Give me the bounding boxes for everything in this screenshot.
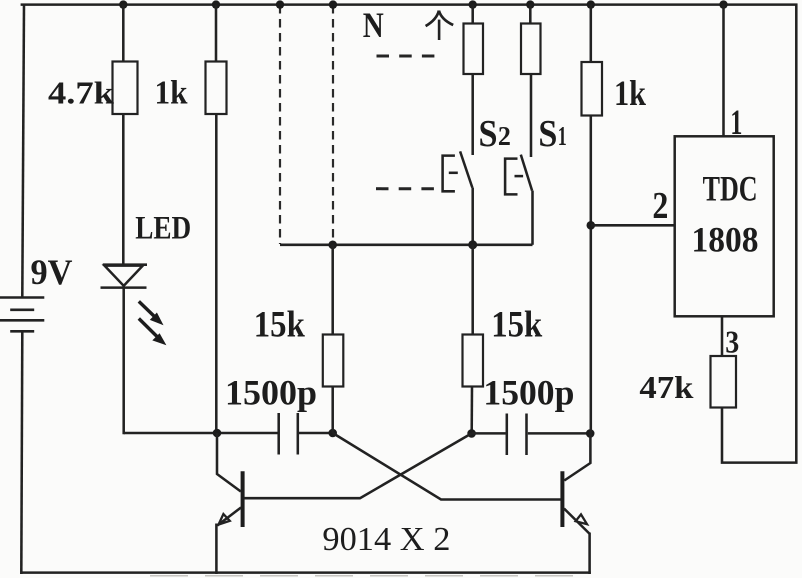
resistor R6 (S1 branch) (521, 24, 541, 75)
node bus / S2 / R5 (468, 240, 477, 249)
wire top rail to R6 (529, 5, 532, 24)
svg-text:S: S (479, 113, 498, 155)
wire trigger to TDC pin 2 (591, 224, 675, 227)
svg-text:1500p: 1500p (225, 372, 317, 412)
wire Q1 base lead (244, 433, 472, 498)
svg-text:9V: 9V (31, 252, 73, 292)
svg-text:N: N (363, 5, 384, 45)
resistor R3 15k (323, 335, 344, 387)
wire bottom ground rail (20, 573, 591, 576)
wire top rail to R2 (215, 5, 218, 62)
dashed line reed boundary left (279, 5, 281, 244)
node top rail / R1 (119, 0, 127, 8)
switch S1 (505, 155, 532, 195)
node trigger junction (587, 221, 596, 230)
wire battery negative to bottom rail (21, 333, 22, 575)
label pin 1 (730, 102, 742, 142)
wire R4 to switch S2 contact (471, 74, 474, 155)
transistor Q1 9014 (216, 433, 242, 574)
wire top supply rail (21, 3, 798, 6)
wire top rail to R7 (590, 5, 593, 63)
node C2 / R5 junction (467, 429, 476, 438)
label 1500p right (483, 372, 574, 412)
transistor Q2 9014 (562, 433, 590, 574)
node C1 / R3 base-drive junction (328, 429, 337, 438)
wire top rail to R1 (122, 5, 125, 62)
label 47k (639, 369, 693, 405)
svg-text:1808: 1808 (692, 220, 759, 260)
wire R1 to LED (122, 114, 125, 265)
svg-text:1k: 1k (155, 75, 188, 112)
svg-text:1500p: 1500p (483, 372, 574, 412)
svg-text:S: S (538, 113, 557, 155)
svg-text:15k: 15k (254, 304, 306, 345)
node top rail dashed right (329, 0, 337, 8)
wire bus to R5 (471, 245, 474, 335)
svg-text:TDC: TDC (703, 169, 758, 209)
node top rail / R4 (469, 0, 477, 8)
svg-text:47k: 47k (639, 369, 693, 405)
dashed pointer lower (376, 187, 437, 190)
resistor R2 1k (206, 62, 227, 115)
label 15k right (491, 304, 543, 345)
resistor R8 47k (711, 356, 737, 408)
label 9V (31, 252, 73, 292)
wire S2 to bus (471, 188, 474, 245)
capacitor C1 1500p (279, 413, 298, 455)
capacitor C2 1500p (507, 414, 527, 456)
svg-text:15k: 15k (491, 304, 543, 345)
wire C2 right plate to Q2 collector node (528, 432, 591, 435)
label 4.7k (48, 75, 114, 111)
battery 9V (0, 298, 44, 332)
label LED (135, 210, 191, 246)
wire bus to R3 (331, 245, 334, 335)
svg-text:1k: 1k (614, 73, 646, 113)
resistor R4 (S2 branch) (464, 24, 484, 75)
svg-text:1: 1 (558, 121, 567, 151)
wire R5 to node (470, 387, 473, 434)
node Q2 collector junction (586, 429, 595, 438)
label 1k right (614, 73, 646, 113)
resistor R1 4.7k (113, 62, 138, 115)
resistor R7 1k (582, 62, 603, 116)
label pin 2 (652, 185, 668, 227)
node top rail / pin 1 (719, 0, 727, 8)
svg-text:3: 3 (725, 323, 739, 359)
svg-text:2: 2 (498, 121, 511, 151)
label 9014 X 2 (322, 521, 450, 558)
node top rail dashed left (276, 0, 284, 8)
wire C1 right plate to node (299, 432, 333, 435)
label 1808 (692, 220, 759, 260)
wire S1 to bus (531, 191, 534, 245)
wire top rail to TDC pin 1 (722, 5, 725, 137)
label TDC (703, 169, 758, 209)
svg-text:2: 2 (652, 185, 668, 227)
label S2 (479, 113, 511, 155)
wire R2 down to collector node (215, 114, 218, 433)
wire R8 to right return wire (722, 4, 796, 463)
dashed line reed boundary right (332, 5, 334, 244)
svg-text:4.7k: 4.7k (48, 75, 114, 111)
LED D1 (101, 265, 167, 346)
arrow up magnet motion (426, 11, 454, 40)
op-amp U1 TDC1808 music IC (675, 136, 774, 316)
wire top rail to R4 (471, 5, 474, 24)
wire LED cathode down to node rail (122, 286, 125, 434)
wire Q2 base lead (333, 433, 561, 500)
label 1500p left (225, 372, 317, 412)
wire R7 down to Q2 collector node (590, 116, 593, 434)
wire left from top rail to battery (22, 4, 24, 297)
label 1k left (155, 75, 188, 112)
wire R6 to switch S1 contact (530, 74, 533, 157)
node top rail / R2 (212, 0, 220, 8)
wire collector rail left section (124, 432, 278, 435)
wire node to C2 left plate (472, 432, 506, 435)
svg-text:9014 X 2: 9014 X 2 (322, 521, 450, 558)
label pin 3 (725, 323, 739, 359)
node top rail / R6 (526, 0, 534, 8)
svg-text:LED: LED (135, 210, 191, 246)
label 15k left (254, 304, 306, 345)
wire TDC pin 3 to R8 (721, 316, 724, 356)
label S1 (538, 113, 566, 155)
wire sensor bottom bus (280, 244, 533, 247)
resistor R5 15k (463, 335, 484, 387)
wire R3 to node (331, 387, 334, 434)
switch S2 (443, 151, 473, 191)
node bus / R3 (328, 241, 337, 250)
node top rail / R7 (587, 0, 595, 8)
node Q1 collector junction (213, 429, 222, 438)
dashed pointer upper (377, 55, 438, 58)
label N (363, 5, 384, 45)
